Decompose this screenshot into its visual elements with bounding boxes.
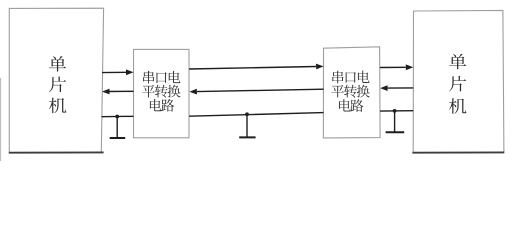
wire: ground line left MCU to middle converter	[102, 115, 134, 117]
wire: ground line right converter to right MCU	[380, 110, 413, 112]
scan edge artifact	[0, 78, 2, 161]
ground symbol (middle)	[239, 114, 255, 137]
ground symbol (right)	[386, 111, 405, 132]
node: junction dot on middle ground wire	[245, 112, 249, 116]
wire: middle converter -> right converter (arrow right)	[189, 67, 316, 70]
label 单片机 (left MCU)	[49, 56, 66, 113]
wire: right MCU -> right converter (arrow left)	[388, 87, 414, 89]
label 串口电平转换电路 (right block)	[332, 71, 343, 84]
label 单片机 (right MCU)	[449, 54, 466, 114]
node: junction dot on left ground wire	[115, 115, 119, 119]
left MCU block (单片机)	[9, 8, 103, 152]
wire: right converter -> middle converter (arrow left)	[197, 89, 324, 91]
right MCU bottom edge (dark)	[412, 151, 504, 153]
wire: ground line between converters	[189, 113, 323, 117]
node: junction dot on right ground wire	[393, 109, 397, 113]
wire: right converter -> right MCU (arrow right)	[380, 66, 406, 68]
wire: left MCU TX -> middle converter (arrow right)	[102, 71, 126, 73]
ground symbol (left)	[110, 117, 126, 139]
middle level converter block (串口电平转换电路)	[134, 49, 190, 137]
wire: middle converter -> left MCU RX (arrow left)	[110, 90, 134, 92]
right MCU block (单片机)	[413, 10, 504, 152]
label 串口电平转换电路 (middle block)	[143, 71, 154, 84]
right level converter block (串口电平转换电路)	[323, 47, 380, 138]
left MCU bottom edge (dark)	[9, 151, 104, 153]
